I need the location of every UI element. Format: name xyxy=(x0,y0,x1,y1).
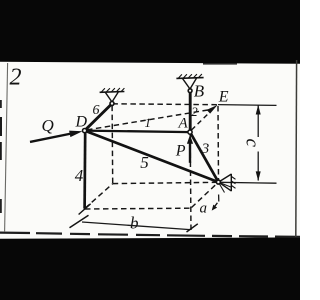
svg-text:5: 5 xyxy=(140,153,149,172)
svg-text:2: 2 xyxy=(191,104,198,119)
rod 3 A-H xyxy=(190,132,218,182)
svg-text:c: c xyxy=(242,139,263,148)
node D circle xyxy=(83,129,87,133)
rod 2 B-A xyxy=(189,91,192,132)
bottom scan band xyxy=(0,237,300,300)
dashed vertical E-H (back right vertical) xyxy=(217,106,220,180)
svg-text:2: 2 xyxy=(10,65,22,91)
node A circle xyxy=(188,130,192,134)
left edge scan marks xyxy=(0,100,2,108)
svg-text:a: a xyxy=(200,201,208,217)
svg-text:A: A xyxy=(178,116,189,132)
svg-text:b: b xyxy=(130,214,139,233)
svg-text:E: E xyxy=(218,88,229,105)
top scan band xyxy=(0,0,300,64)
dashed front bottom edge F1-F2 xyxy=(85,207,191,210)
svg-text:4: 4 xyxy=(75,166,84,185)
node G circle xyxy=(110,102,114,106)
svg-text:B: B xyxy=(194,82,205,101)
dimension c line with arrows xyxy=(257,105,259,137)
small arrow near a xyxy=(214,203,217,207)
thin extension line right of E xyxy=(218,104,277,107)
rod 5 D-H xyxy=(85,131,219,183)
node H circle xyxy=(216,180,220,184)
dashed hidden edge G-E (top back edge) xyxy=(112,103,217,106)
support at H: hatches xyxy=(232,177,236,189)
dimension b line xyxy=(82,222,190,230)
dashed hidden edge below G (back-left vertical) xyxy=(111,106,114,184)
svg-text:6: 6 xyxy=(93,103,100,118)
separator dash-dot line xyxy=(0,233,300,237)
arrowhead at E xyxy=(207,105,218,114)
dashed bottom back edge F3-H xyxy=(113,182,219,183)
thin extension line right of H xyxy=(220,181,277,184)
rod 3/5 thin extensions past H xyxy=(218,182,230,187)
support at B: triangle xyxy=(182,78,196,89)
dashed vertical below A (extension to b line) xyxy=(189,135,192,232)
node B circle xyxy=(188,89,192,93)
support at B: hatches xyxy=(179,74,202,78)
rod 1 D-A xyxy=(85,131,190,133)
svg-text:Q: Q xyxy=(42,116,54,135)
dashed depth edge F2-H with a label xyxy=(192,183,218,208)
support at G: hatches xyxy=(102,88,125,92)
dashed bottom left depth edge F1-F3 xyxy=(85,184,113,209)
svg-text:P: P xyxy=(175,143,186,160)
force Q arrow xyxy=(30,134,72,142)
dashed stub below H xyxy=(218,195,220,202)
rod 4 D-F1 xyxy=(83,131,86,209)
dashed diagonal A-E xyxy=(192,112,211,130)
force P arrow xyxy=(189,143,191,163)
left cell rule xyxy=(5,63,8,232)
svg-text:1: 1 xyxy=(145,115,152,130)
dashed diagonal D-E xyxy=(87,109,212,130)
support at H: triangle xyxy=(220,174,231,192)
svg-text:3: 3 xyxy=(201,141,210,157)
svg-text:D: D xyxy=(75,113,88,130)
top band bump xyxy=(203,63,237,65)
b right slash xyxy=(187,224,198,232)
support at G: triangle xyxy=(105,92,118,102)
right cell rule xyxy=(295,60,298,237)
rod 6 D-G xyxy=(85,104,112,131)
support at G: ceiling line xyxy=(100,91,125,94)
b left slash xyxy=(70,215,89,228)
support at B: ceiling line xyxy=(176,77,203,80)
anchor slash at bottom of rod 4 xyxy=(79,204,91,215)
